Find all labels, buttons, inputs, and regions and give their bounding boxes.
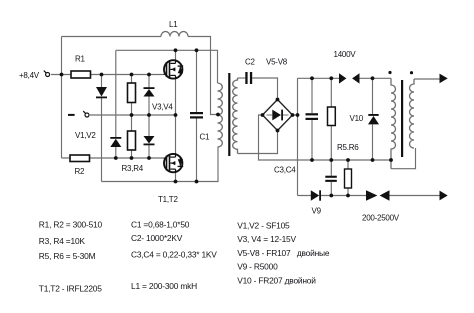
wire bottom row — [298, 195, 441, 197]
svg-text:V3, V4 = 12-15V: V3, V4 = 12-15V — [237, 234, 296, 244]
polarity dot left — [388, 71, 391, 74]
wire top rail right segment to center-tap feed — [188, 37, 218, 115]
bridge V5-V8 — [263, 100, 293, 131]
wire drain bus B — [116, 50, 218, 83]
resistor R4 — [128, 131, 136, 150]
wire V10 column — [372, 78, 374, 160]
resistor R5 — [328, 107, 336, 126]
polarity dot right — [410, 71, 413, 74]
svg-text:V1,V2: V1,V2 — [75, 131, 96, 140]
resistor R3 — [128, 83, 136, 103]
wire bottom drain row — [102, 147, 219, 182]
wire bridge plus vertical — [293, 78, 298, 195]
zener V3 — [144, 87, 155, 96]
resistor R1 — [71, 71, 91, 78]
capacitor C3 — [306, 113, 319, 120]
svg-text:V5-V8: V5-V8 — [266, 58, 288, 67]
capacitor C4 — [325, 176, 337, 182]
capacitor C1 — [190, 112, 203, 119]
wire multiplier top — [298, 77, 392, 79]
wire output top — [414, 78, 440, 80]
wire top rail left segment — [62, 36, 162, 38]
capacitor C2 — [245, 72, 252, 84]
wire R6 column — [347, 160, 349, 196]
wire +8.4V input — [51, 74, 71, 76]
wire R2 row / gate rail lower — [62, 157, 164, 159]
terminal minus — [83, 111, 89, 117]
inductor L1 — [161, 32, 188, 37]
svg-text:C2: C2 — [245, 58, 256, 67]
svg-text:T1,T2: T1,T2 — [158, 195, 178, 204]
diode V10 — [368, 114, 379, 124]
transformer2 right winding — [410, 79, 416, 148]
minus sign — [68, 114, 75, 116]
svg-text:R5, R6 = 5-30M: R5, R6 = 5-30M — [39, 251, 96, 261]
wire secondary top to C2 — [238, 77, 246, 79]
svg-text:V3,V4: V3,V4 — [152, 102, 173, 111]
svg-text:C2- 1000*2KV: C2- 1000*2KV — [131, 233, 183, 243]
spark gap 200-2500V — [366, 190, 390, 200]
svg-text:R3, R4 =10K: R3, R4 =10K — [39, 236, 86, 246]
svg-text:+8,4V: +8,4V — [19, 71, 40, 80]
svg-text:C1 =0,68-1,0*50: C1 =0,68-1,0*50 — [131, 220, 190, 230]
transformer1 secondary winding — [233, 78, 238, 154]
svg-text:V9: V9 — [312, 207, 322, 216]
svg-text:200-2500V: 200-2500V — [362, 213, 400, 222]
wire C4 column — [330, 160, 332, 196]
svg-text:R1: R1 — [75, 54, 86, 63]
diode V2 — [110, 137, 121, 147]
svg-text:R1, R2 = 300-510: R1, R2 = 300-510 — [39, 220, 103, 230]
svg-text:R3,R4: R3,R4 — [122, 164, 144, 173]
wire left border — [61, 37, 63, 159]
wire R3 R4 column — [131, 75, 133, 159]
transformer1 primary winding — [218, 83, 223, 147]
svg-text:V1,V2 - SF105: V1,V2 - SF105 — [237, 221, 290, 231]
diode V1 — [96, 87, 107, 98]
zener V4 — [144, 136, 155, 145]
arrow output top — [440, 74, 448, 84]
svg-text:V9 - R5000: V9 - R5000 — [237, 262, 278, 272]
wire V3 V4 column — [148, 75, 150, 159]
mosfet T2 — [164, 153, 184, 173]
wire R5 column — [330, 78, 332, 160]
svg-text:T1,T2 - IRFL2205: T1,T2 - IRFL2205 — [39, 284, 102, 294]
wire C1 column — [196, 50, 198, 181]
svg-text:C3,C4 = 0,22-0,33* 1KV: C3,C4 = 0,22-0,33* 1KV — [131, 250, 217, 260]
svg-text:V10 - FR207 двойной: V10 - FR207 двойной — [237, 276, 316, 286]
transformer2 bottom link — [391, 148, 416, 169]
svg-text:1400V: 1400V — [334, 50, 357, 59]
svg-text:C1: C1 — [200, 133, 211, 142]
wire secondary bottom to bridge bottom — [238, 131, 278, 154]
svg-text:R5.R6: R5.R6 — [337, 143, 359, 152]
terminal +8.4V — [44, 71, 50, 77]
transformer1 core — [228, 73, 230, 156]
wire V2 column — [115, 50, 117, 158]
svg-text:V5-V8 - FR107 двойные: V5-V8 - FR107 двойные — [237, 248, 330, 258]
wire C3 column — [311, 78, 313, 160]
wire V1 column — [101, 75, 103, 182]
spark gap 1400V — [339, 73, 360, 83]
wire C2 to bridge top — [252, 78, 277, 100]
mosfet T1 — [164, 60, 184, 80]
resistor R2 — [70, 155, 90, 162]
diode V9 — [311, 190, 321, 200]
svg-text:V10: V10 — [350, 114, 364, 123]
arrow output bottom — [440, 191, 448, 201]
transformer2 core — [401, 80, 403, 157]
svg-text:R2: R2 — [75, 167, 86, 176]
wire minus rail — [90, 114, 176, 116]
svg-text:L1 = 200-300 mkH: L1 = 200-300 mkH — [131, 281, 197, 291]
svg-text:L1: L1 — [169, 20, 178, 29]
wire mosfet vertical — [175, 50, 177, 181]
wire bridge minus to bus — [259, 115, 392, 160]
svg-text:C3,C4: C3,C4 — [274, 166, 296, 175]
resistor R6 — [345, 169, 352, 188]
wire gate rail upper — [91, 74, 164, 76]
transformer2 left winding — [391, 78, 396, 168]
